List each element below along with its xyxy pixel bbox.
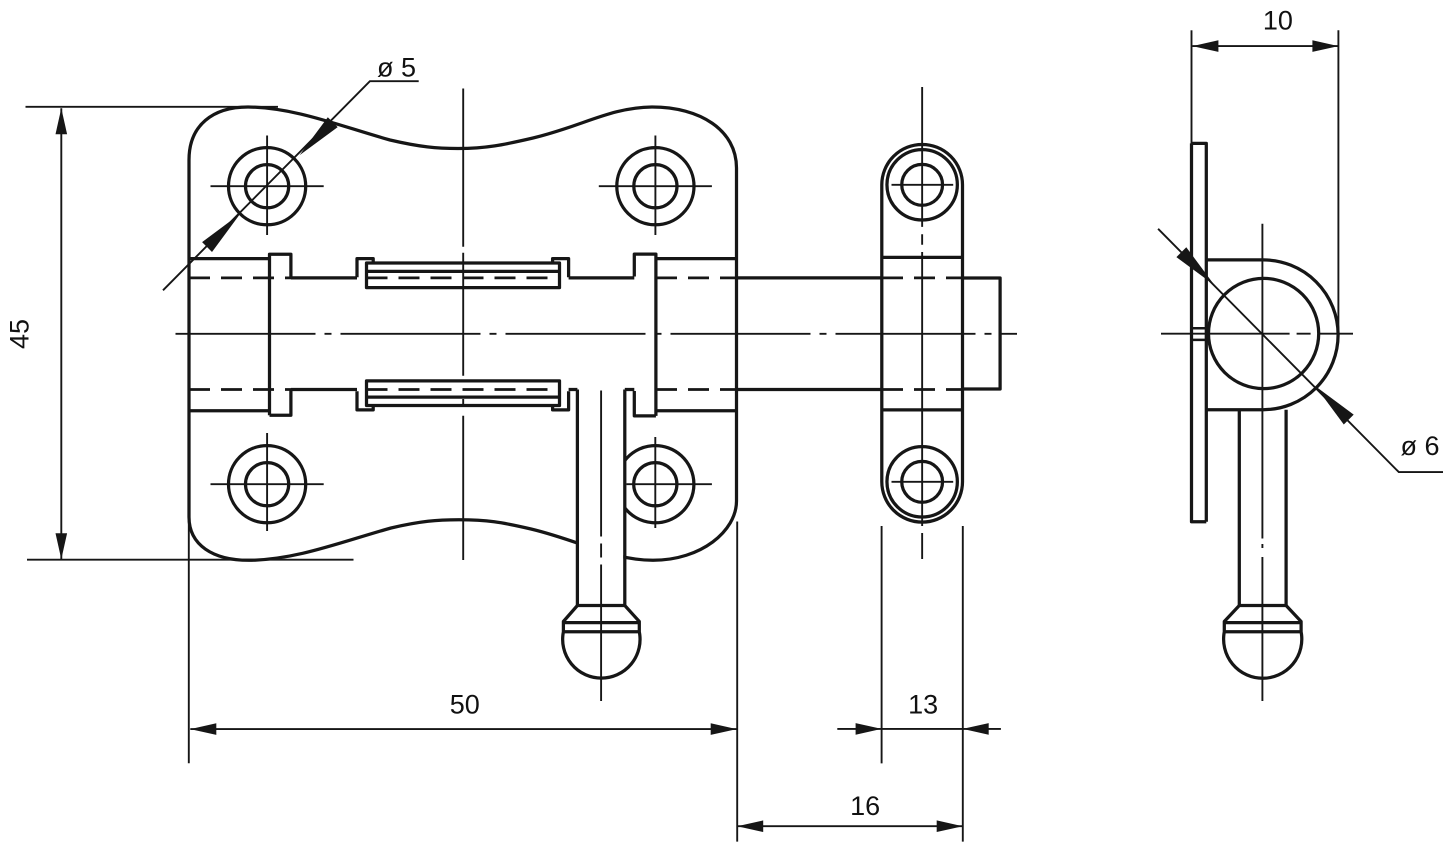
screw hole bottom-right outer arc clipped by handle: [625, 446, 694, 523]
shared extension x962.8: [962, 526, 964, 842]
handle center line front: [600, 391, 602, 702]
keeper hole top crosshair: [892, 184, 954, 186]
dim 10 extension left: [1191, 30, 1193, 145]
sleeve bottom hooks: [357, 391, 569, 410]
keeper hole top inner: [902, 164, 943, 205]
screw hole top-right outer: [617, 148, 694, 225]
svg-text:50: 50: [450, 689, 480, 719]
dim 50 extension left: [188, 521, 190, 764]
dim 45 extension top: [26, 106, 279, 108]
keeper loop band: [882, 257, 963, 410]
dim 10 arrow left: [1192, 40, 1218, 52]
side loop: [1206, 260, 1338, 410]
screw hole bottom-left inner: [246, 463, 289, 506]
sleeve top rail: [367, 263, 560, 288]
dim 50 arrow right: [711, 723, 737, 735]
crosshair bottom-right: [627, 437, 712, 528]
svg-text:45: 45: [4, 319, 34, 349]
leader dia5 line: [163, 81, 419, 290]
dim 13 arrow left: [856, 723, 882, 735]
keeper hole bottom inner: [902, 461, 943, 502]
shared extension x737: [736, 522, 738, 842]
dim 45 extension bottom: [27, 559, 354, 561]
side horizontal center line: [1161, 333, 1353, 335]
dim 10 extension right: [1337, 30, 1339, 331]
dim 13 extension left: [881, 526, 883, 763]
leader dia6 arrow upper: [1176, 247, 1214, 285]
dim 16 line: [737, 825, 963, 827]
handle knob side: [1224, 606, 1302, 679]
screw hole top-right inner: [634, 165, 677, 208]
svg-text:10: 10: [1263, 6, 1293, 36]
crosshair top-right: [599, 136, 712, 236]
dim 45 arrow up: [56, 108, 68, 134]
dim 50 line: [190, 728, 736, 730]
svg-text:ø 6: ø 6: [1401, 431, 1440, 461]
svg-text:ø 5: ø 5: [377, 53, 416, 83]
leader dia6 line: [1158, 229, 1443, 472]
right guide tab: [634, 254, 656, 416]
side plate hidden ticks: [1192, 328, 1207, 340]
screw hole bottom-left outer: [229, 446, 306, 523]
bridge edge right top: [656, 257, 737, 260]
side bolt circle: [1209, 278, 1319, 388]
dim 50 arrow left: [190, 723, 216, 735]
bridge edge right bottom: [656, 409, 737, 412]
dim 16 arrow right: [937, 820, 963, 832]
bolt tip: [963, 278, 1001, 389]
handle shaft front: [577, 390, 624, 606]
left guide tab: [270, 254, 291, 415]
bolt hidden edge top dashed: [189, 276, 737, 279]
screw hole bottom-right inner: [634, 463, 677, 506]
leader dia5 arrow lower: [202, 214, 240, 252]
bolt visible edge top: [291, 276, 882, 279]
svg-text:13: 13: [908, 689, 938, 719]
keeper hole bottom crosshair: [892, 481, 954, 483]
side vertical center line: [1261, 224, 1263, 701]
sleeve top hooks: [357, 259, 569, 278]
handle shaft side: [1239, 410, 1286, 606]
handle shaft occlusion: [579, 450, 623, 604]
svg-text:16: 16: [850, 791, 880, 821]
dim 45 line: [60, 108, 62, 559]
crosshair top-left: [211, 136, 324, 236]
dim 16 arrow left: [737, 820, 763, 832]
leader dia5 arrow upper: [300, 117, 338, 155]
dim 10 arrow right: [1312, 40, 1338, 52]
bridge edge left top: [189, 257, 270, 260]
dim 13 arrow right: [963, 723, 989, 735]
bolt hidden edge bottom dashed: [189, 388, 737, 391]
bolt visible edge bottom: [291, 388, 882, 391]
bridge edge left bottom: [189, 409, 270, 412]
keeper center line: [921, 87, 923, 559]
side plate strip: [1192, 143, 1207, 521]
keeper hole bottom outer: [887, 447, 957, 517]
plate outline: [189, 107, 737, 560]
crosshair bottom-left: [211, 433, 324, 531]
screw hole top-left inner: [246, 165, 289, 208]
keeper outline: [882, 144, 963, 522]
keeper hole top outer: [887, 150, 957, 220]
handle knob front: [563, 606, 640, 679]
screw hole top-left outer: [229, 148, 306, 225]
leader dia6 arrow lower: [1316, 386, 1354, 424]
sleeve bottom rail: [367, 381, 560, 406]
dim 10 line: [1192, 45, 1338, 47]
plate vertical center line: [462, 89, 464, 561]
bolt axis center line: [176, 333, 1018, 335]
dim 13 line: [837, 728, 1001, 730]
dim 45 arrow down: [56, 533, 68, 559]
